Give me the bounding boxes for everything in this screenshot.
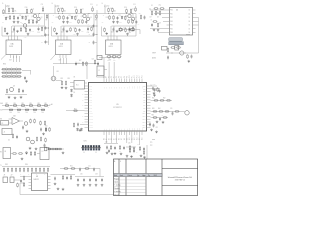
svg-text:RB4: RB4 <box>143 97 146 99</box>
svg-text:D5: D5 <box>189 28 191 30</box>
svg-text:22p: 22p <box>159 5 161 7</box>
svg-text:R37: R37 <box>6 103 9 105</box>
svg-text:Q1: Q1 <box>81 16 83 18</box>
svg-text:B10: B10 <box>129 137 131 140</box>
svg-text:RB5: RB5 <box>143 99 146 101</box>
svg-text:VREF: VREF <box>152 53 156 55</box>
svg-text:RB13: RB13 <box>142 122 145 124</box>
svg-text:10k: 10k <box>114 11 116 13</box>
svg-text:R51: R51 <box>70 166 73 168</box>
svg-text:R16: R16 <box>30 19 33 21</box>
svg-text:R19: R19 <box>68 78 71 80</box>
svg-text:RX: RX <box>0 151 2 153</box>
svg-text:P14: P14 <box>139 75 141 78</box>
svg-text:P5: P5 <box>116 76 118 78</box>
svg-text:C40: C40 <box>105 142 108 144</box>
svg-text:C11: C11 <box>90 4 93 6</box>
svg-text:XX: XX <box>82 105 84 107</box>
svg-text:IN_L: IN_L <box>6 6 9 8</box>
svg-text:R17: R17 <box>79 60 82 62</box>
svg-text:C16: C16 <box>92 59 95 61</box>
svg-text:D5: D5 <box>8 140 10 142</box>
svg-text:R61: R61 <box>152 98 155 100</box>
svg-text:R16: R16 <box>129 19 132 21</box>
svg-text:R18: R18 <box>61 78 64 80</box>
svg-text:C13: C13 <box>136 128 138 131</box>
svg-text:5V: 5V <box>38 24 40 26</box>
svg-text:P10: P10 <box>129 75 131 78</box>
svg-text:P9: P9 <box>126 76 128 78</box>
svg-text:C14: C14 <box>37 32 40 34</box>
svg-text:C12: C12 <box>118 15 121 17</box>
svg-text:IN_R: IN_R <box>55 6 58 8</box>
svg-text:C12: C12 <box>134 128 136 131</box>
svg-text:RN3: RN3 <box>5 164 8 166</box>
svg-text:R36: R36 <box>14 103 17 105</box>
svg-text:RB15: RB15 <box>142 127 145 129</box>
svg-text:U8: U8 <box>36 176 38 178</box>
svg-text:PB6: PB6 <box>170 32 173 34</box>
svg-text:R15: R15 <box>106 17 109 19</box>
svg-text:RB12: RB12 <box>142 119 145 121</box>
svg-text:GND: GND <box>31 31 34 33</box>
svg-text:D1: D1 <box>189 13 191 15</box>
svg-text:R31: R31 <box>45 103 48 105</box>
svg-text:XX: XX <box>82 116 84 118</box>
svg-text:C8: C8 <box>159 23 161 25</box>
svg-text:SCL: SCL <box>0 109 3 111</box>
svg-text:OUT: OUT <box>59 60 62 62</box>
svg-text:P8: P8 <box>124 76 126 78</box>
svg-text:PB0: PB0 <box>170 10 173 12</box>
svg-text:P3: P3 <box>111 76 113 78</box>
svg-text:RB6: RB6 <box>143 102 146 104</box>
svg-text:4k7: 4k7 <box>150 17 152 19</box>
svg-text:R35: R35 <box>22 103 25 105</box>
svg-text:RB1: RB1 <box>143 88 146 90</box>
svg-text:LS1: LS1 <box>56 71 59 73</box>
svg-text:RB11: RB11 <box>142 116 145 118</box>
svg-text:RB9: RB9 <box>143 110 146 112</box>
svg-text:GND: GND <box>81 31 84 33</box>
svg-text:C14: C14 <box>128 32 131 34</box>
svg-text:10k: 10k <box>10 112 12 114</box>
svg-text:D0: D0 <box>189 10 191 12</box>
svg-text:GND: GND <box>131 31 134 33</box>
svg-text:J4: J4 <box>11 175 13 177</box>
svg-text:P6: P6 <box>119 76 121 78</box>
svg-text:OUT: OUT <box>9 60 12 62</box>
svg-text:P7: P7 <box>121 76 123 78</box>
svg-text:TX: TX <box>0 165 2 167</box>
svg-text:2k2: 2k2 <box>70 22 72 24</box>
svg-text:J2: J2 <box>98 70 100 72</box>
svg-text:P1: P1 <box>106 76 108 78</box>
svg-text:PB3: PB3 <box>170 21 173 23</box>
svg-text:PB2: PB2 <box>170 17 173 19</box>
svg-text:R14: R14 <box>124 7 127 9</box>
svg-text:C15: C15 <box>77 63 80 65</box>
svg-text:10u: 10u <box>119 150 121 152</box>
svg-text:R63: R63 <box>152 108 155 110</box>
svg-text:C12: C12 <box>68 15 71 17</box>
svg-text:RB3: RB3 <box>143 94 146 96</box>
svg-text:4k7: 4k7 <box>157 17 159 19</box>
svg-text:R14: R14 <box>74 7 77 9</box>
svg-text:K1: K1 <box>2 123 4 125</box>
svg-text:10k: 10k <box>34 112 36 114</box>
svg-text:PB4: PB4 <box>170 25 173 27</box>
svg-text:10k: 10k <box>26 112 28 114</box>
svg-text:R34: R34 <box>30 103 33 105</box>
svg-text:C41: C41 <box>128 143 131 145</box>
svg-text:C42: C42 <box>137 143 140 145</box>
svg-text:TP1: TP1 <box>150 142 153 144</box>
svg-text:5V: 5V <box>88 24 90 26</box>
svg-text:TP2: TP2 <box>150 145 153 147</box>
svg-text:U6: U6 <box>4 151 6 153</box>
svg-text:2k2: 2k2 <box>120 22 122 24</box>
svg-text:R33: R33 <box>38 103 41 105</box>
svg-text:D3: D3 <box>189 21 191 23</box>
svg-text:C30: C30 <box>80 174 83 176</box>
svg-text:R15: R15 <box>56 17 59 19</box>
svg-text:LM324: LM324 <box>108 46 112 48</box>
svg-text:RL1: RL1 <box>76 84 79 86</box>
svg-text:C62: C62 <box>113 60 116 62</box>
svg-text:Q1: Q1 <box>31 16 33 18</box>
svg-text:R21: R21 <box>74 108 77 110</box>
svg-text:D1: D1 <box>76 15 78 17</box>
svg-text:B7: B7 <box>121 138 123 140</box>
svg-text:Q2: Q2 <box>90 17 92 19</box>
svg-text:P11: P11 <box>131 75 133 77</box>
svg-text:R9: R9 <box>157 13 159 15</box>
svg-text:Py: Py <box>148 175 150 177</box>
svg-text:J1: J1 <box>4 132 6 134</box>
svg-text:XX: XX <box>82 94 84 96</box>
svg-text:C14: C14 <box>139 128 141 131</box>
svg-text:J3: J3 <box>4 175 6 177</box>
svg-text:XX: XX <box>82 99 84 101</box>
svg-text:PB5: PB5 <box>170 28 173 30</box>
svg-text:R9: R9 <box>95 20 97 22</box>
svg-text:C61: C61 <box>107 60 110 62</box>
svg-text:RN1: RN1 <box>3 64 6 66</box>
svg-text:D4: D4 <box>189 25 191 27</box>
svg-text:Q3: Q3 <box>13 86 15 88</box>
svg-text:B0: B0 <box>104 138 106 140</box>
svg-text:R62: R62 <box>163 98 166 100</box>
svg-text:C33: C33 <box>95 174 98 176</box>
svg-text:RN4: RN4 <box>25 164 28 166</box>
svg-text:Q2: Q2 <box>41 17 43 19</box>
svg-text:C11: C11 <box>131 128 133 130</box>
svg-text:EN: EN <box>0 118 2 120</box>
svg-text:RB0: RB0 <box>143 86 146 88</box>
svg-text:R16: R16 <box>79 19 82 21</box>
svg-text:XXXX_REV 1.0: XXXX_REV 1.0 <box>175 180 185 182</box>
svg-text:+5: +5 <box>96 5 98 7</box>
svg-text:R66: R66 <box>152 115 155 117</box>
svg-text:R29: R29 <box>139 13 142 15</box>
svg-text:R40: R40 <box>45 126 48 128</box>
svg-text:SW1: SW1 <box>84 141 87 143</box>
svg-text:C21: C21 <box>88 166 91 168</box>
svg-text:U5: U5 <box>116 104 118 106</box>
svg-text:C51: C51 <box>170 108 173 110</box>
svg-text:U7: U7 <box>42 151 44 153</box>
svg-text:PB1: PB1 <box>170 13 173 15</box>
svg-text:D9: D9 <box>73 92 75 94</box>
svg-text:U4: U4 <box>176 10 178 12</box>
svg-text:B13: B13 <box>136 137 138 140</box>
svg-text:C7: C7 <box>151 19 153 21</box>
svg-text:10k: 10k <box>64 11 66 13</box>
svg-text:PIC18F8722: PIC18F8722 <box>113 107 122 109</box>
svg-text:P12: P12 <box>134 75 136 78</box>
svg-text:C11: C11 <box>133 4 136 6</box>
svg-text:C11: C11 <box>41 4 44 6</box>
svg-text:LM324: LM324 <box>9 46 13 48</box>
svg-text:RB2: RB2 <box>143 91 146 93</box>
svg-text:5V: 5V <box>138 24 140 26</box>
svg-text:D6: D6 <box>189 32 191 34</box>
svg-text:RB10: RB10 <box>142 113 145 115</box>
svg-text:R11: R11 <box>177 45 180 47</box>
svg-text:XX: XX <box>82 121 84 123</box>
svg-text:C3: C3 <box>156 89 158 91</box>
svg-text:B4: B4 <box>114 138 116 140</box>
svg-text:D1: D1 <box>27 15 29 17</box>
svg-text:P15: P15 <box>142 75 144 78</box>
svg-text:10k: 10k <box>42 112 44 114</box>
svg-text:B8: B8 <box>124 138 126 140</box>
svg-text:P13: P13 <box>136 75 138 78</box>
svg-text:+12V: +12V <box>73 34 76 36</box>
svg-text:RB14: RB14 <box>142 124 145 126</box>
svg-text:C12: C12 <box>19 15 22 17</box>
svg-text:R14: R14 <box>25 7 28 9</box>
svg-text:B6: B6 <box>119 138 121 140</box>
svg-text:RB8: RB8 <box>143 108 146 110</box>
svg-text:X1: X1 <box>151 5 153 7</box>
svg-text:D8: D8 <box>74 77 76 79</box>
svg-text:10k: 10k <box>14 11 16 13</box>
svg-text:D2: D2 <box>189 17 191 19</box>
svg-text:2009: 2009 <box>154 175 157 177</box>
svg-text:B15: B15 <box>142 137 144 140</box>
svg-text:B2: B2 <box>109 138 111 140</box>
svg-text:RB7: RB7 <box>143 105 146 107</box>
svg-text:R9: R9 <box>46 20 48 22</box>
svg-text:C10: C10 <box>129 128 131 131</box>
svg-text:C52: C52 <box>156 127 159 129</box>
svg-text:D1: D1 <box>126 15 128 17</box>
svg-text:B12: B12 <box>134 137 136 140</box>
svg-text:IN_C: IN_C <box>104 6 107 8</box>
svg-text:R64: R64 <box>158 108 161 110</box>
svg-text:10k: 10k <box>18 112 20 114</box>
svg-text:LM324: LM324 <box>58 46 62 48</box>
svg-text:+12V: +12V <box>24 37 27 39</box>
svg-text:C14: C14 <box>87 32 90 34</box>
